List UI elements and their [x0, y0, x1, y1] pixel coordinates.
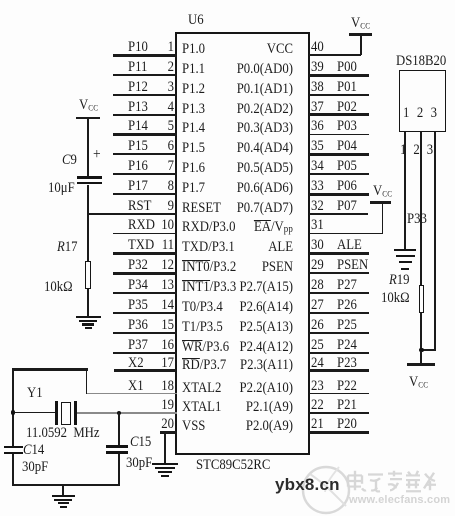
wire VSS drop: [164, 433, 166, 464]
pin name right 33: [195, 181, 293, 196]
net label RST: [128, 199, 151, 214]
watermark www.elecfans.com: [349, 494, 450, 506]
pin number 31: [311, 218, 324, 233]
wire DS18B20 pin3 (VDD): [434, 132, 436, 351]
wire left pin 9 net RST: [88, 213, 177, 215]
label 30pF (C14): [22, 460, 48, 475]
net label P16: [128, 159, 148, 174]
label R17: [57, 240, 78, 255]
wire left pin 14 net P35: [113, 312, 177, 315]
wire right pin 36 net P03: [309, 134, 370, 136]
net label P13: [128, 100, 148, 115]
net label P24: [337, 338, 357, 353]
net label P12: [128, 80, 148, 95]
pin name 15: [182, 320, 223, 335]
net label P20: [337, 417, 357, 432]
wire right pin 22 net P21: [309, 412, 370, 414]
wire right pin 40: [309, 54, 362, 56]
pin name right 21: [195, 419, 293, 434]
pin name 4: [182, 102, 205, 117]
wire right pin 37 net P02: [309, 113, 370, 116]
wire left pin 1 net P10: [113, 54, 177, 57]
pin name right 29: [195, 260, 293, 275]
net label P35: [128, 298, 148, 313]
resistor R19 body: [419, 285, 425, 313]
pin name 9: [182, 201, 221, 216]
pin name right 36: [195, 121, 293, 136]
pin number 28: [311, 278, 324, 293]
ground (VSS): [0, 0, 455, 1]
pin name 10: [182, 220, 235, 235]
net label P17: [128, 179, 148, 194]
pin number 35: [311, 139, 324, 154]
wire crystal left vertical: [12, 369, 14, 446]
pin number 39: [311, 60, 324, 75]
wire RST node to R17: [87, 214, 89, 261]
pin name 1: [182, 42, 205, 57]
net label P03: [337, 119, 357, 134]
label STC89C52RC: [196, 458, 270, 473]
pin name right 23: [195, 381, 293, 396]
wire left pin 6 net P15: [113, 153, 177, 155]
pin number 13: [154, 278, 174, 293]
capacitor C14 plates: [0, 0, 455, 1]
wire pin18 XTAL2 net X1: [87, 393, 177, 395]
net label P36: [128, 318, 148, 333]
pin number 29: [311, 258, 324, 273]
pin number 3: [154, 80, 174, 95]
pin name 19: [182, 400, 221, 415]
pin number 18: [154, 379, 174, 394]
pin number 15: [154, 318, 174, 333]
pin number 25: [311, 338, 324, 353]
pin name right 27: [195, 300, 293, 315]
label 30pF (C15): [126, 456, 152, 471]
wire left pin 7 net P16: [113, 173, 177, 175]
net label P33: [407, 212, 427, 227]
pin number 26: [311, 318, 324, 333]
wire right pin 32 net P07: [309, 213, 369, 215]
pin number 40: [311, 40, 324, 55]
wire VCC stem pin40: [360, 35, 362, 55]
wire left pin 20: [160, 431, 177, 433]
DS18B20 outside pin numbers 1 2 3: [400, 143, 433, 158]
wire right pin 29 net PSEN: [309, 272, 370, 274]
pin number 24: [311, 356, 324, 371]
pin number 16: [154, 338, 174, 353]
net label P01: [337, 80, 357, 95]
label 11.0592 MHz: [26, 426, 100, 441]
label Y1: [27, 386, 43, 401]
net label P23: [337, 356, 357, 371]
net label X1: [128, 379, 144, 394]
wire left pin 5 net P14: [113, 133, 177, 136]
wire C9 to RST node: [87, 185, 89, 214]
wire R19 to VCC node: [420, 313, 422, 350]
net label P00: [337, 60, 357, 75]
pin name right 25: [195, 340, 293, 355]
label C15: [130, 435, 151, 450]
wire to crystal left plate: [13, 412, 57, 414]
pin number 8: [154, 179, 174, 194]
label VCC (pin31): [373, 184, 392, 199]
wire left pin 3 net P12: [113, 94, 177, 97]
wire left pin 12 net P32: [113, 272, 177, 275]
pin number 2: [154, 60, 174, 75]
wire left pin 4 net P13: [113, 114, 177, 116]
pin name 12: [182, 260, 236, 275]
wire DS18B20 pin1 (GND): [404, 132, 406, 249]
pin number 34: [311, 159, 324, 174]
pin name 13: [182, 280, 236, 295]
wire R17 to ground: [87, 289, 89, 318]
wire left pin 17 net X2: [114, 369, 177, 372]
net label P26: [337, 298, 357, 313]
wire right pin 35 net P04: [309, 153, 370, 156]
wire right pin 28 net P27: [309, 292, 370, 295]
wire crystal box top (to XTAL2): [12, 368, 88, 371]
label VCC (bottom): [409, 375, 428, 390]
pin name right 28: [195, 280, 293, 295]
pin name 7: [182, 161, 205, 176]
net label P22: [337, 379, 357, 394]
pin number 9: [154, 199, 174, 214]
label VCC (pin40): [351, 16, 370, 31]
label 10k (R17): [44, 280, 73, 295]
watermark ybx8.cn text: [275, 476, 340, 494]
pin number 1: [154, 40, 174, 55]
wire left pin 15 net P36: [113, 332, 177, 334]
pin number 37: [311, 100, 324, 115]
pin number 23: [311, 379, 324, 394]
wire left pin 8 net P17: [113, 193, 177, 196]
pin name 2: [182, 62, 205, 77]
net label P15: [128, 139, 148, 154]
wire ground stem (crystal): [62, 486, 64, 496]
pin name right 38: [195, 82, 293, 97]
ground (crystal): [0, 0, 455, 1]
pin name 16: [182, 340, 229, 355]
junction R19/pin3: [419, 348, 424, 353]
pin number 4: [154, 100, 174, 115]
wire right pin 38 net P01: [309, 94, 370, 96]
wire C15 bottom stem: [118, 454, 120, 486]
pin number 19: [154, 398, 174, 413]
wire right pin 24 net P23: [309, 369, 370, 372]
capacitor C9 plates: [0, 0, 455, 1]
label C9: [62, 153, 77, 168]
pin number 38: [311, 80, 324, 95]
pin name 11: [182, 240, 235, 255]
wire VCC to C9: [87, 119, 89, 177]
ground (R17): [0, 0, 455, 1]
pin number 27: [311, 298, 324, 313]
wire right pin 27 net P26: [309, 312, 370, 314]
net label P07: [337, 199, 357, 214]
pin name 20: [182, 419, 205, 434]
wire left pin 11 net TXD: [113, 252, 177, 255]
pin number 5: [154, 119, 174, 134]
pin number 36: [311, 119, 324, 134]
net label ALE: [337, 238, 362, 253]
pin number 33: [311, 179, 324, 194]
wire right pin 34 net P05: [309, 173, 370, 175]
wire left pin 16 net P37: [113, 352, 177, 355]
net label P25: [337, 318, 357, 333]
label DS18B20: [396, 54, 446, 69]
wire left pin 2 net P11: [113, 74, 177, 77]
wire C14 bottom stem: [12, 454, 14, 486]
label 10uF: [48, 181, 75, 196]
label VCC (reset): [79, 98, 98, 113]
pin name right 40: [195, 42, 293, 57]
pin name 6: [182, 141, 205, 156]
net label P11: [128, 60, 147, 75]
pin number 7: [154, 159, 174, 174]
pin name right 31: [195, 220, 293, 235]
watermark chinese logo strokes: [346, 468, 438, 494]
net label P06: [337, 179, 357, 194]
pin name right 37: [195, 102, 293, 117]
pin number 11: [154, 238, 174, 253]
pin name 5: [182, 121, 205, 136]
wire right pin 30 net ALE: [309, 252, 370, 255]
wire DS18B20 pin2 DQ (net P33): [420, 132, 422, 286]
crystal Y1: [0, 0, 455, 1]
net label PSEN: [337, 258, 368, 273]
net label P05: [337, 159, 357, 174]
pin number 12: [154, 258, 174, 273]
net label RXD: [128, 218, 155, 233]
label R19: [389, 273, 410, 288]
pin number 6: [154, 139, 174, 154]
junction crystal left: [11, 410, 16, 415]
net label P14: [128, 119, 148, 134]
pin number 10: [154, 218, 174, 233]
pin number 17: [154, 356, 174, 371]
pin name right 35: [195, 141, 293, 156]
pin number 20: [154, 417, 174, 432]
wire right pin 31: [309, 233, 384, 235]
wire crystal ground bus: [12, 484, 120, 486]
pin name 14: [182, 300, 223, 315]
net label P32: [128, 258, 148, 273]
pin name right 26: [195, 320, 293, 335]
wire right pin 39 net P00: [309, 74, 370, 77]
pin number 21: [311, 417, 324, 432]
pin number 30: [311, 238, 324, 253]
net label P21: [337, 398, 357, 413]
net label P02: [337, 100, 357, 115]
pin name right 30: [195, 240, 293, 255]
net label P04: [337, 139, 357, 154]
net label P37: [128, 338, 148, 353]
power VCC bar (reset): [76, 117, 100, 120]
pin name right 32: [195, 201, 293, 216]
net label TXD: [128, 238, 154, 253]
power VCC bar (pin31): [370, 201, 391, 204]
ground (DS18B20 pin1): [0, 0, 455, 1]
wire pin19 XTAL1 crystal net: [77, 412, 177, 414]
pin name right 24: [195, 358, 293, 373]
net label X2: [128, 356, 144, 371]
label C14: [23, 443, 44, 458]
pin name 8: [182, 181, 205, 196]
IC U6 STC89C52RC body: [175, 32, 310, 455]
resistor R17 body: [85, 261, 91, 289]
pin number 14: [154, 298, 174, 313]
net label P10: [128, 40, 148, 55]
wire right pin 25 net P24: [309, 352, 370, 354]
wire box right drop to pin18: [86, 369, 88, 393]
net label P27: [337, 278, 357, 293]
wire left pin 13 net P34: [113, 292, 177, 294]
pin name 17: [182, 358, 226, 373]
wire left pin 10 net RXD: [113, 233, 177, 235]
pin number 32: [311, 199, 324, 214]
watermark elecfans circle logo: [296, 458, 358, 516]
label 10k (R19): [381, 291, 410, 306]
pin name 18: [182, 381, 221, 396]
junction XTAL1 / C15: [117, 411, 122, 416]
plus sign C9 polarity: [93, 147, 101, 162]
wire VCC stem (bottom): [420, 351, 422, 365]
capacitor C15 plates: [0, 0, 455, 1]
pin name right 39: [195, 62, 293, 77]
wire VCC stem pin31: [382, 203, 384, 234]
wire C15 top stem: [118, 413, 120, 446]
pin name right 22: [195, 400, 293, 415]
power VCC bar (bottom): [407, 363, 435, 366]
DS18B20 inside pin numbers 1 2 3: [403, 106, 437, 121]
power VCC bar (pin40): [349, 33, 372, 36]
wire right pin 33 net P06: [309, 193, 370, 196]
sensor DS18B20 body: [399, 70, 446, 132]
wire right pin 21 net P20: [309, 431, 370, 434]
wire right pin 26 net P25: [309, 332, 370, 335]
label U6: [188, 13, 204, 28]
pin number 22: [311, 398, 324, 413]
wire pin3 to pin2 join: [421, 349, 434, 351]
net label P34: [128, 278, 148, 293]
wire right pin 23 net P22: [309, 393, 370, 395]
pin name right 34: [195, 161, 293, 176]
pin name 3: [182, 82, 205, 97]
